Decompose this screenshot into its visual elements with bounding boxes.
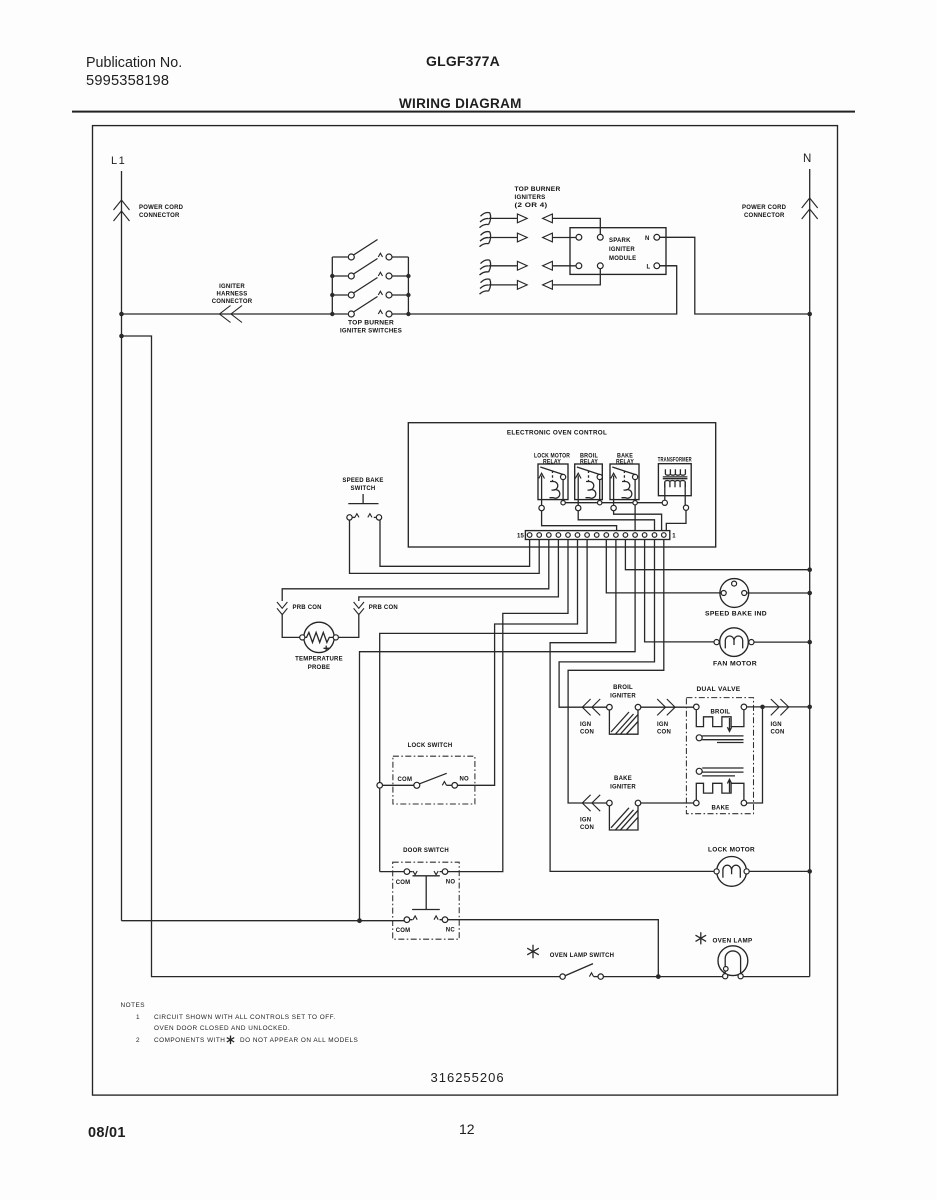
power cord connector N (802, 198, 818, 219)
svg-text:1: 1 (136, 1014, 140, 1021)
secondary winding (665, 481, 685, 488)
wire pin12 to door switch lower COM / L1 (360, 540, 636, 921)
switch row 4 (332, 297, 408, 318)
wire pin15 to bake igniter (568, 540, 664, 804)
svg-text:IGNITER: IGNITER (609, 247, 635, 253)
svg-text:316255206: 316255206 (431, 1070, 505, 1085)
transformer T1 (658, 458, 692, 511)
igniter row 3 (489, 261, 576, 270)
wire pin4 to right probe connector (359, 540, 559, 602)
igniter row 2 (489, 233, 576, 242)
wire N vertical (809, 169, 811, 977)
svg-text:NC: NC (446, 928, 456, 934)
svg-text:LOCK MOTOR: LOCK MOTOR (708, 847, 755, 854)
svg-text:POWER CORD: POWER CORD (139, 205, 184, 211)
broil valve plunger (696, 735, 702, 741)
asterisk oven lamp (696, 932, 707, 944)
svg-text:15: 15 (517, 534, 525, 540)
svg-text:BROIL: BROIL (711, 710, 731, 716)
svg-text:N: N (645, 236, 650, 242)
right lead (562, 480, 564, 501)
bottom stubs to terminals (541, 500, 543, 506)
wire pin3 to left probe connector (282, 540, 549, 602)
igniter harness connector (212, 284, 253, 323)
wire spark module N to N line (660, 237, 810, 314)
wire fan motor to N (754, 641, 810, 643)
footer (88, 1002, 505, 1141)
bake igniter E2 (607, 776, 641, 830)
wire pin14 to broil igniter (559, 540, 654, 708)
svg-text:TRANSFORMER: TRANSFORMER (658, 458, 692, 464)
dual valve assembly (686, 686, 753, 814)
svg-text:COM: COM (396, 880, 411, 886)
probe connector PRB CON right (354, 602, 398, 615)
wire L1 branch to lamp loop (122, 336, 560, 977)
svg-text:TOP BURNER: TOP BURNER (348, 321, 394, 327)
wire pin13 to fan motor (645, 540, 714, 642)
svg-text:BAKE: BAKE (614, 776, 632, 782)
svg-text:CONNECTOR: CONNECTOR (744, 213, 785, 219)
svg-text:CIRCUIT SHOWN WITH ALL CONTROL: CIRCUIT SHOWN WITH ALL CONTROLS SET TO O… (154, 1014, 336, 1021)
bake solenoid (727, 779, 731, 792)
svg-text:LOCK SWITCH: LOCK SWITCH (408, 743, 453, 749)
bake valve plunger (696, 768, 702, 774)
wire spark module L to main run (660, 265, 677, 267)
wire main igniter run at y=314 (122, 266, 677, 314)
svg-text:L: L (647, 265, 651, 271)
svg-text:L1: L1 (111, 155, 126, 167)
svg-text:SPARK: SPARK (609, 238, 631, 244)
wire lock motor to N (749, 870, 810, 872)
svg-text:NO: NO (460, 777, 470, 783)
svg-text:SPEED BAKE IND: SPEED BAKE IND (705, 611, 767, 618)
svg-text:CONNECTOR: CONNECTOR (139, 213, 180, 219)
svg-text:IGNITER: IGNITER (219, 284, 245, 290)
svg-text:IGNITER: IGNITER (610, 694, 636, 700)
wire bake igniter to dual valve (641, 802, 694, 804)
wire right bus (407, 257, 409, 314)
svg-text:CON: CON (580, 825, 594, 831)
wire broil igniter to dual valve (641, 706, 694, 708)
wire L1 vertical lower (121, 314, 123, 921)
svg-text:IGNITERS: IGNITERS (515, 195, 546, 201)
svg-text:TOP BURNER: TOP BURNER (515, 187, 561, 193)
svg-text:IGN: IGN (580, 818, 591, 824)
svg-text:PRB CON: PRB CON (369, 605, 398, 611)
wire speed bake ind to N (747, 592, 810, 594)
wire L1 to door switch (122, 920, 360, 922)
wire broil valve to N with junction (747, 706, 810, 708)
svg-text:HARNESS: HARNESS (217, 292, 248, 298)
wire broil relay coil term to pin 14 (578, 511, 654, 531)
svg-text:12: 12 (459, 1121, 475, 1137)
svg-text:COMPONENTS WITH: COMPONENTS WITH (154, 1037, 225, 1044)
svg-text:PROBE: PROBE (308, 665, 330, 671)
wire bake valve to junction riser (747, 707, 763, 803)
svg-text:IGN: IGN (580, 722, 591, 728)
svg-text:MODULE: MODULE (609, 256, 636, 262)
relay K2 broil relay (575, 454, 603, 511)
svg-text:ELECTRONIC OVEN CONTROL: ELECTRONIC OVEN CONTROL (507, 430, 607, 437)
junction L1-igniter wire (119, 312, 124, 317)
power cord connector L1 (114, 200, 130, 221)
svg-text:CONNECTOR: CONNECTOR (212, 299, 253, 305)
svg-text:08/01: 08/01 (88, 1125, 126, 1141)
terminal circles inside module (576, 234, 582, 240)
svg-text:NO: NO (446, 880, 456, 886)
node N (742, 153, 818, 977)
switch arm (540, 467, 563, 475)
junction door COM (357, 918, 362, 923)
header (72, 53, 855, 113)
dashed link (552, 471, 554, 482)
wire pin9 to speed bake ind (606, 540, 721, 593)
wire transformer right to pin 15 (666, 510, 686, 531)
wire junction to door switch lower COM (360, 920, 405, 922)
wire pin1 to speed bake switch right (380, 520, 530, 566)
connector strip P1 (517, 531, 676, 540)
switch row 3 (332, 278, 408, 299)
igniter row 1 (489, 214, 600, 234)
svg-text:CON: CON (580, 730, 594, 736)
svg-text:5995358198: 5995358198 (86, 73, 169, 89)
speed bake switch S1 (342, 478, 383, 520)
lock motor M2 (708, 847, 755, 887)
core (663, 477, 688, 479)
svg-text:1: 1 (672, 534, 676, 540)
junction bake relay on bus (to pin12) (633, 501, 637, 505)
wire oven lamp to N (743, 976, 810, 978)
wire relay common bus (563, 502, 662, 504)
igniter row 4 (489, 269, 600, 290)
top burner igniters label (515, 187, 561, 209)
speed bake indicator DS1 (705, 579, 767, 618)
wire door switch NC to lamp circuit (448, 920, 659, 977)
svg-text:SPEED BAKE: SPEED BAKE (342, 478, 383, 484)
temperature probe RT1 (295, 622, 343, 671)
wire pin10 to lock motor (550, 540, 714, 872)
svg-text:SWITCH: SWITCH (351, 486, 376, 492)
svg-text:GLGF377A: GLGF377A (426, 53, 500, 69)
bake igniter connector IGN CON left (580, 795, 600, 831)
wire bake relay bus to pin 12 (634, 505, 636, 531)
connector IGN CON broil-valve (657, 699, 675, 736)
junction lock relay on bus (561, 501, 565, 505)
switch row 2 (332, 259, 408, 280)
top rule (72, 111, 855, 113)
svg-text:NOTES: NOTES (121, 1002, 146, 1009)
secondary leads (664, 482, 666, 500)
svg-text:POWER CORD: POWER CORD (742, 205, 787, 211)
wire pin11 to N line (625, 540, 809, 570)
primary winding (665, 469, 685, 475)
svg-text:2: 2 (136, 1037, 140, 1044)
svg-text:(2 OR 4): (2 OR 4) (515, 203, 548, 209)
svg-text:BROIL: BROIL (613, 685, 633, 691)
wire pin6 to lock switch NO (457, 540, 577, 786)
spark igniter module U1 (570, 228, 666, 275)
svg-text:PRB CON: PRB CON (293, 605, 322, 611)
wire lock relay coil term to pin 10 (542, 511, 617, 531)
junction N wire at N line (807, 312, 812, 317)
svg-text:DOOR SWITCH: DOOR SWITCH (403, 848, 449, 854)
svg-text:Publication No.: Publication No. (86, 55, 182, 71)
svg-text:N: N (803, 153, 811, 165)
wire bake relay coil term to pin 15 (614, 511, 662, 531)
svg-text:TEMPERATURE: TEMPERATURE (295, 657, 343, 663)
svg-text:FAN MOTOR: FAN MOTOR (713, 661, 757, 668)
oven lamp DS2 (696, 932, 753, 979)
asterisk lamp switch (527, 945, 539, 958)
svg-text:CON: CON (771, 730, 785, 736)
probe connector PRB CON left (277, 602, 322, 615)
wire L1 vertical upper (121, 171, 123, 314)
wire pin5 to door switch NO (448, 540, 568, 872)
switch row 1 (332, 240, 408, 261)
oven lamp switch S4 (527, 945, 723, 980)
left lead with arrow (541, 476, 543, 500)
svg-text:DUAL VALVE: DUAL VALVE (697, 686, 741, 693)
svg-text:OVEN LAMP SWITCH: OVEN LAMP SWITCH (550, 953, 614, 959)
connector pins 15..1 (527, 533, 666, 538)
junction broil relay on bus (598, 501, 602, 505)
coil (550, 482, 560, 499)
door switch S3 (393, 848, 460, 939)
junction L1-lamp branch (119, 334, 124, 339)
broil igniter E1 (607, 685, 641, 734)
svg-text:IGN: IGN (657, 722, 668, 728)
junction dots on buses (330, 274, 334, 278)
svg-text:BAKE: BAKE (712, 806, 730, 812)
svg-text:CON: CON (657, 730, 671, 736)
node L1 (111, 155, 184, 314)
wire pin2 to speed bake switch left (350, 520, 540, 573)
svg-text:IGN: IGN (771, 722, 782, 728)
wire left bus (331, 257, 333, 314)
relay K1 lock motor relay (534, 454, 570, 511)
wire probe connector left to temp probe (282, 614, 300, 638)
broil igniter connector IGN CON left (580, 699, 600, 736)
wire probe connector right to temp probe (338, 614, 359, 638)
svg-text:WIRING DIAGRAM: WIRING DIAGRAM (399, 96, 522, 111)
svg-text:OVEN DOOR CLOSED AND UNLOCKED.: OVEN DOOR CLOSED AND UNLOCKED. (154, 1025, 290, 1032)
top burner igniter switches (330, 240, 411, 335)
fan motor M1 (713, 628, 757, 668)
electronic oven control box (408, 423, 715, 547)
svg-text:COM: COM (398, 777, 413, 783)
svg-text:IGNITER: IGNITER (610, 785, 636, 791)
svg-text:OVEN LAMP: OVEN LAMP (713, 938, 753, 945)
relay K3 bake relay (610, 454, 639, 511)
svg-text:DO NOT APPEAR ON ALL MODELS: DO NOT APPEAR ON ALL MODELS (240, 1037, 358, 1044)
svg-text:IGNITER SWITCHES: IGNITER SWITCHES (340, 329, 402, 335)
diagram border (93, 126, 838, 1096)
broil solenoid (694, 704, 700, 710)
svg-text:COM: COM (396, 928, 411, 934)
wire pin7 to lock/door switch COM (380, 540, 587, 872)
lock switch S2 (377, 743, 475, 804)
connector IGN CON valve-N (771, 699, 789, 736)
